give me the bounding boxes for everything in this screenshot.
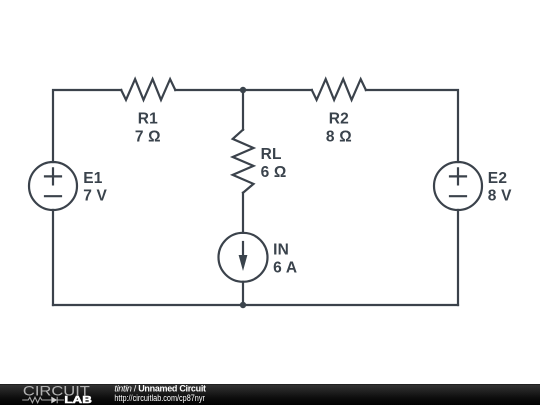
svg-text:6 A: 6 A — [273, 260, 297, 277]
svg-text:8 Ω: 8 Ω — [326, 129, 352, 146]
svg-text:6 Ω: 6 Ω — [261, 164, 287, 181]
svg-text:E2: E2 — [488, 170, 507, 187]
wire RL to IN — [242, 193, 244, 233]
voltage source E1 — [29, 162, 77, 210]
wire R1 to node A to R2 — [175, 89, 311, 91]
node B junction dot — [240, 302, 246, 308]
svg-text:R2: R2 — [329, 111, 349, 128]
svg-text:IN: IN — [273, 242, 289, 259]
E2 minus sign — [450, 195, 466, 197]
E1 minus sign — [45, 195, 61, 197]
current source IN — [219, 233, 268, 282]
wire IN bottom to node B — [242, 282, 244, 305]
E1 plus sign — [45, 168, 61, 184]
wire R2 to top-right corner down to E2 — [366, 90, 458, 162]
svg-text:8 V: 8 V — [488, 188, 512, 205]
resistor R1 — [121, 79, 175, 100]
CircuitLab logo resistor-diode glyph — [22, 397, 64, 403]
IN arrow shaft — [242, 242, 244, 260]
resistor RL — [233, 130, 254, 193]
wire bottom rail — [53, 304, 458, 306]
svg-text:LAB: LAB — [64, 394, 92, 405]
node A junction dot — [240, 87, 246, 93]
wire E2 bottom to bottom-right corner — [457, 210, 459, 305]
svg-text:RL: RL — [261, 146, 282, 163]
wire node A down to RL — [242, 90, 244, 130]
svg-text:7 V: 7 V — [83, 188, 107, 205]
wire E1 bottom to bottom-left corner — [52, 210, 54, 305]
IN arrow head — [239, 255, 248, 271]
E2 plus sign — [450, 168, 466, 184]
svg-text:R1: R1 — [138, 111, 158, 128]
svg-text:7 Ω: 7 Ω — [135, 129, 161, 146]
svg-text:http://circuitlab.com/cp87nyr: http://circuitlab.com/cp87nyr — [114, 393, 204, 403]
wire top-left: left corner to R1 — [53, 90, 121, 162]
resistor R2 — [312, 79, 366, 100]
voltage source E2 — [434, 162, 482, 210]
svg-text:E1: E1 — [83, 170, 103, 187]
